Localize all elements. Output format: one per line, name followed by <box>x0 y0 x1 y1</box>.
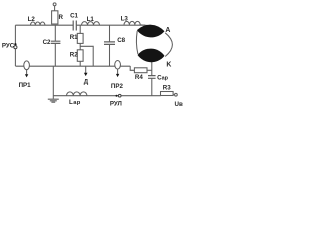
svg-text:L3: L3 <box>121 15 129 22</box>
svg-text:K: K <box>166 61 171 68</box>
svg-text:Uв: Uв <box>175 101 183 108</box>
svg-text:A: A <box>165 27 170 34</box>
svg-text:C2: C2 <box>43 39 51 46</box>
svg-text:R1: R1 <box>70 34 78 41</box>
svg-text:R2: R2 <box>70 52 78 59</box>
svg-text:C1: C1 <box>70 13 78 20</box>
svg-text:Д: Д <box>84 79 89 86</box>
svg-text:ПР1: ПР1 <box>19 82 32 89</box>
svg-text:Lар: Lар <box>69 99 81 106</box>
svg-text:РУЛ: РУЛ <box>110 100 122 107</box>
svg-text:Cар: Cар <box>157 74 169 81</box>
svg-text:L2: L2 <box>28 16 36 23</box>
svg-text:L1: L1 <box>87 16 95 23</box>
svg-text:R4: R4 <box>135 74 143 81</box>
svg-text:ПР2: ПР2 <box>111 83 124 90</box>
svg-text:C8: C8 <box>117 37 125 44</box>
svg-text:R: R <box>59 14 64 21</box>
svg-text:R3: R3 <box>163 84 171 91</box>
svg-text:РУС: РУС <box>2 43 15 50</box>
